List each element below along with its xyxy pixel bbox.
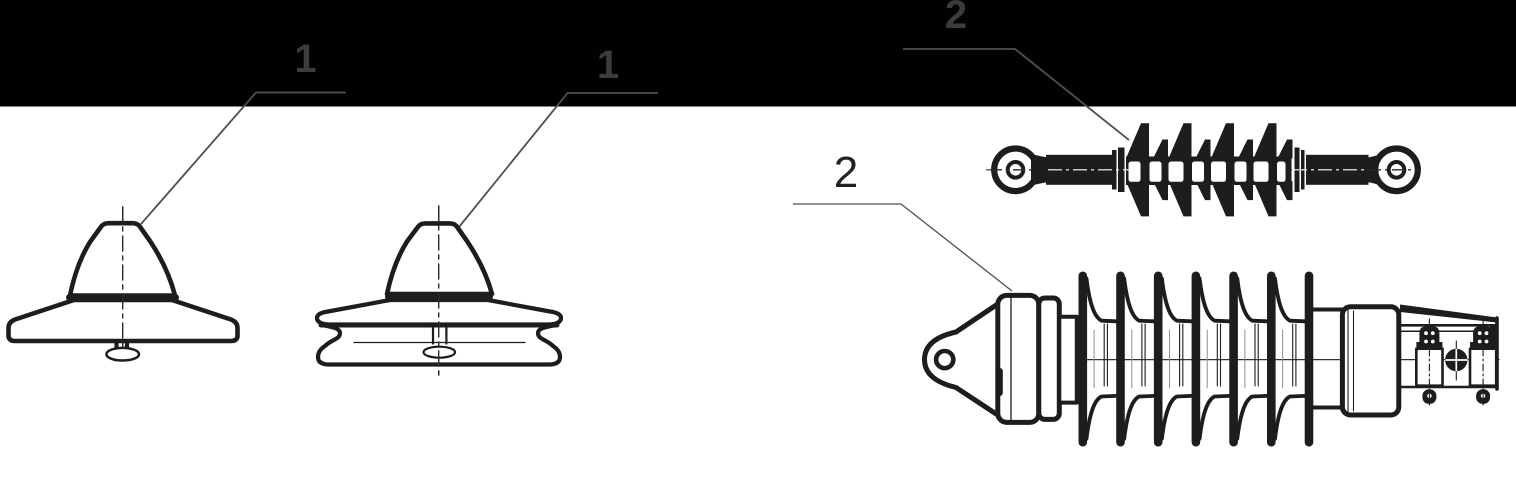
leader line to composite insulator (bottom) bbox=[793, 204, 1012, 291]
left collar C bbox=[1112, 150, 1117, 190]
white axis dash-dot over dark parts C bbox=[1048, 169, 1131, 171]
large shed 2 bottom fin bbox=[1169, 181, 1192, 216]
pin tip ellipse A bbox=[106, 348, 139, 361]
U-bolt clamp left D bbox=[1416, 319, 1442, 405]
right taper C bbox=[1368, 154, 1381, 186]
svg-text:2: 2 bbox=[834, 148, 858, 197]
centerline A bbox=[122, 207, 124, 355]
black header band bbox=[0, 0, 1516, 107]
large shed 3 top fin bbox=[1211, 123, 1234, 158]
right corner fill D bbox=[1490, 327, 1498, 349]
bracket frame lines D bbox=[1399, 324, 1497, 327]
shed 3 edge bbox=[1154, 272, 1163, 447]
shed 4 edge bbox=[1192, 272, 1201, 447]
small shed 2 top fin bbox=[1196, 140, 1211, 159]
small shed 4 top fin bbox=[1278, 140, 1293, 159]
lower groove lobe B bbox=[318, 325, 560, 365]
svg-text:1: 1 bbox=[294, 37, 316, 81]
pin tip ellipse B bbox=[424, 347, 456, 358]
right ball-eye C bbox=[1375, 149, 1418, 192]
dome A bbox=[70, 223, 175, 295]
small shed 1 top fin bbox=[1153, 140, 1168, 159]
center pivot bolt D bbox=[1445, 341, 1467, 380]
neck D bbox=[1059, 317, 1077, 403]
bracket top wedge D bbox=[1400, 305, 1497, 323]
upper skirt disc B bbox=[317, 300, 561, 325]
neck band B bbox=[389, 293, 490, 300]
large shed 1 top fin bbox=[1126, 123, 1149, 158]
right rod C bbox=[1306, 155, 1369, 185]
small shed 4 bottom fin bbox=[1278, 181, 1293, 200]
pin shank lines B bbox=[433, 325, 446, 344]
large shed 1 bottom fin bbox=[1126, 181, 1149, 216]
small shed 1 bottom fin bbox=[1153, 181, 1168, 200]
svg-text:1: 1 bbox=[597, 43, 619, 87]
shed 2 edge bbox=[1116, 272, 1125, 447]
small shed 3 top fin bbox=[1238, 140, 1253, 159]
left eye centerline over bbox=[990, 169, 1047, 171]
pin ticks A bbox=[117, 342, 128, 349]
right collar C bbox=[1295, 148, 1300, 193]
shed 5 edge bbox=[1229, 272, 1238, 447]
shed 1 edge bbox=[1079, 272, 1088, 447]
small shed 2 bottom fin bbox=[1196, 181, 1211, 200]
end-fitting cylinder D bbox=[998, 295, 1039, 422]
large shed 4 top fin bbox=[1254, 123, 1277, 158]
U-bolt clamp right D bbox=[1470, 319, 1496, 405]
large shed 4 bottom fin bbox=[1254, 181, 1277, 216]
leader line to insulator 1 (second) bbox=[459, 93, 658, 227]
core to right fitting D bbox=[1313, 310, 1343, 408]
axis thin line D bbox=[932, 359, 1499, 361]
dome B bbox=[387, 223, 492, 294]
inner groove line B bbox=[354, 342, 525, 344]
left ball-eye C bbox=[994, 149, 1037, 192]
weathersheds C bbox=[1126, 123, 1293, 216]
tongue lug D bbox=[925, 303, 1001, 417]
centerline B bbox=[438, 206, 440, 376]
shed 7 edge bbox=[1305, 272, 1314, 447]
centerline B over bbox=[438, 206, 440, 376]
cylinder inner line D bbox=[1010, 298, 1012, 420]
neck band A bbox=[70, 294, 176, 301]
shed 6 edge bbox=[1267, 272, 1276, 447]
shed stems D bbox=[1079, 272, 1314, 447]
large shed 2 top fin bbox=[1169, 123, 1192, 158]
left taper C bbox=[1031, 154, 1048, 186]
left rod C bbox=[1046, 155, 1113, 185]
tongue hole D bbox=[936, 351, 953, 368]
skirt A bbox=[9, 300, 238, 341]
cylinder dark edge mark D bbox=[997, 371, 1003, 393]
core windows bbox=[1129, 162, 1141, 182]
svg-text:2: 2 bbox=[945, 0, 967, 37]
small shed 3 bottom fin bbox=[1238, 181, 1253, 200]
sheath lines D bbox=[1104, 324, 1296, 386]
right eye centerline over bbox=[1369, 169, 1419, 171]
ridge band D bbox=[1039, 298, 1060, 419]
large shed 3 bottom fin bbox=[1211, 181, 1234, 216]
centerline A over bbox=[122, 207, 124, 348]
right end-fitting block D bbox=[1342, 307, 1398, 415]
leader line to insulator 1 (first) bbox=[141, 93, 346, 225]
axis centerline C bbox=[986, 169, 1412, 171]
block inner lines D bbox=[1348, 310, 1354, 412]
skirt bottom thick edge B bbox=[321, 323, 557, 328]
shed core band bbox=[1126, 157, 1292, 186]
shed surface curves D bbox=[1087, 279, 1305, 439]
leader line to composite insulator (top) bbox=[903, 49, 1129, 140]
